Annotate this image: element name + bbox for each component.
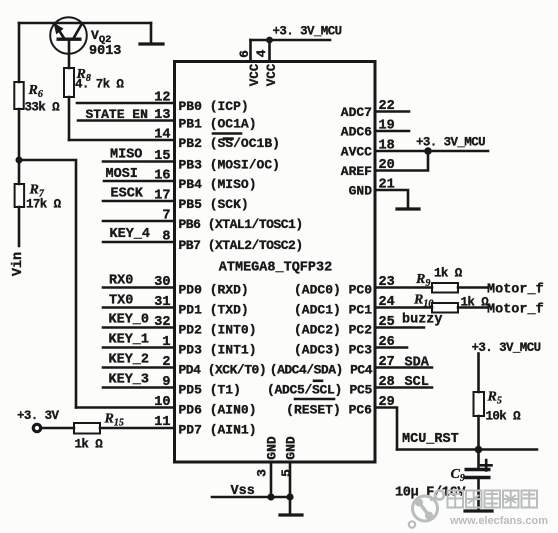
pin name GND — [349, 184, 373, 199]
ground below C9 — [465, 509, 492, 512]
watermark www.elecfans.com — [449, 515, 548, 527]
pin name VCC (pin6) — [248, 63, 262, 86]
wire pin 9 stub (KEY_3) — [103, 386, 175, 389]
pin name (ADC2) PC2 — [294, 323, 372, 338]
wire pin 8 stub (KEY_4) — [103, 241, 175, 244]
wire pin 14 row — [69, 139, 175, 142]
pin name AVCC — [341, 145, 372, 160]
label 1k ohm (R10) — [461, 296, 490, 310]
pin name PB2 (SS/OC1B) — [179, 136, 280, 151]
svg-text:ADC6: ADC6 — [341, 125, 372, 140]
pin number 30 — [154, 275, 170, 290]
net label SDA — [405, 356, 430, 371]
wire pin 31 stub (TX0) — [103, 306, 175, 309]
node on AVCC rail — [424, 147, 432, 155]
ground bottom center — [280, 513, 302, 516]
svg-text:GND: GND — [349, 184, 373, 199]
svg-text:9013: 9013 — [89, 44, 121, 59]
svg-text:27: 27 — [379, 355, 395, 370]
svg-text:10: 10 — [154, 395, 170, 410]
svg-text:1: 1 — [162, 335, 170, 350]
pin name GND (pin5) — [284, 436, 299, 460]
svg-text:PB7 (XTAL2/TOSC2): PB7 (XTAL2/TOSC2) — [179, 238, 303, 253]
pin 6 stub — [249, 40, 252, 62]
svg-text:R6: R6 — [28, 83, 43, 100]
net label ESCK — [111, 187, 144, 202]
svg-text:VCC: VCC — [265, 63, 279, 86]
wire pin 18 rail (+3.3V_MCU) — [375, 150, 488, 153]
label 1k ohm — [75, 438, 104, 452]
pin name PD1 (TXD) — [179, 303, 249, 318]
svg-text:+3. 3V_MCU: +3. 3V_MCU — [416, 136, 485, 150]
label C9 — [451, 467, 465, 484]
pin name (ADC1) PC1 — [294, 303, 372, 318]
net label buzzy — [402, 313, 443, 328]
net label KEY_2 — [109, 353, 150, 368]
pin 4 stub — [268, 40, 271, 62]
pin number 24 — [379, 295, 395, 310]
svg-text:(RESET) PC6: (RESET) PC6 — [286, 403, 372, 418]
label +3.3V — [17, 409, 60, 423]
label 9013 — [89, 44, 121, 59]
svg-text:PD2 (INT0): PD2 (INT0) — [179, 323, 257, 338]
pin number 21 — [379, 178, 395, 193]
pin number 26 — [379, 335, 395, 350]
pin name (RESET) PC6 with overline — [286, 399, 372, 418]
wire pin 20 stub to AVCC rail — [375, 151, 428, 171]
pin number 18 — [379, 139, 395, 154]
svg-text:12: 12 — [154, 91, 170, 106]
svg-text:18: 18 — [379, 139, 395, 154]
wire MCU_RST rail — [397, 448, 537, 451]
pin name PD6 (AIN0) — [179, 403, 257, 418]
svg-text:21: 21 — [379, 178, 395, 193]
svg-text:R9: R9 — [415, 272, 430, 289]
svg-text:29: 29 — [379, 395, 395, 410]
svg-text:14: 14 — [154, 128, 170, 143]
net label Motor_f (pin24) — [487, 303, 544, 318]
pin number 4 — [254, 49, 269, 57]
pin name VCC (pin4) — [265, 63, 279, 86]
node Vss-pin5 — [286, 493, 293, 500]
pin number 20 — [379, 158, 395, 173]
svg-text:KEY_0: KEY_0 — [109, 313, 150, 328]
svg-text:PD3 (INT1): PD3 (INT1) — [179, 343, 257, 358]
svg-text:30: 30 — [154, 275, 170, 290]
svg-text:+3. 3V: +3. 3V — [17, 409, 60, 423]
label +3.3V_MCU top — [273, 25, 342, 39]
pin number 27 — [379, 355, 395, 370]
wire pin 12 stub — [77, 102, 175, 105]
pin name (ADC4/SDA) PC4 — [270, 363, 373, 378]
wire pin 22 stub — [375, 110, 409, 113]
svg-text:9: 9 — [162, 375, 170, 390]
ground at transistor right — [140, 23, 163, 44]
pin number 12 — [154, 91, 170, 106]
wire pin 26 stub — [375, 346, 407, 349]
svg-text:33k Ω: 33k Ω — [25, 101, 61, 115]
svg-text:PD4 (XCK/T0): PD4 (XCK/T0) — [179, 363, 267, 378]
svg-text:ADC7: ADC7 — [341, 105, 372, 120]
pin 5 GND stub — [289, 462, 292, 497]
svg-text:23: 23 — [379, 275, 395, 290]
pin 3 GND stub — [270, 462, 273, 497]
watermark CJK text block — [448, 491, 538, 508]
svg-text:3: 3 — [255, 469, 270, 477]
svg-text:Motor_f: Motor_f — [487, 283, 544, 298]
wire: transistor collector/emitter top rail — [19, 22, 151, 25]
pin number 17 — [154, 189, 170, 204]
pin number 32 — [154, 315, 170, 330]
pin number 29 — [379, 395, 395, 410]
net label KEY_0 — [109, 313, 150, 328]
resistor R15 — [74, 423, 100, 434]
svg-text:1k Ω: 1k Ω — [434, 267, 463, 281]
wire: left vertical down to R6 — [18, 23, 21, 82]
pin number 16 — [154, 169, 170, 184]
pin name PB3 (MOSI/OC) — [179, 158, 280, 173]
svg-text:PB4 (MISO): PB4 (MISO) — [179, 177, 257, 192]
pin number 31 — [154, 295, 170, 310]
svg-text:PB5 (SCK): PB5 (SCK) — [179, 197, 249, 212]
svg-text:24: 24 — [379, 295, 395, 310]
label 33k ohm — [25, 101, 61, 115]
wire pin 19 stub — [375, 130, 409, 133]
watermark logo pads — [409, 491, 444, 528]
pin name PB0 (ICP) — [179, 99, 249, 114]
svg-text:AVCC: AVCC — [341, 145, 372, 160]
svg-text:11: 11 — [154, 415, 170, 430]
label +3.3V_MCU right — [416, 136, 485, 150]
wire pin 21 stub — [375, 190, 408, 209]
net label MOSI — [106, 167, 138, 182]
svg-text:KEY_3: KEY_3 — [109, 373, 150, 388]
svg-text:10k Ω: 10k Ω — [486, 410, 522, 424]
wire pin 25 stub — [375, 326, 424, 329]
svg-text:(ADC3) PC3: (ADC3) PC3 — [294, 343, 372, 358]
wire pin 13 stub (STATE EN) — [78, 119, 175, 122]
wire R10 to Motor_f — [458, 306, 487, 309]
label R9 — [415, 272, 430, 289]
svg-text:(ADC2) PC2: (ADC2) PC2 — [294, 323, 372, 338]
svg-text:Vss: Vss — [231, 484, 255, 499]
resistor R9 — [432, 283, 458, 293]
wire: R6 to R7 — [18, 109, 21, 184]
pin number 22 — [379, 99, 395, 114]
terminal +3.3V — [33, 424, 40, 431]
wire pin 16 stub (MOSI) — [104, 180, 175, 183]
svg-text:PD1 (TXD): PD1 (TXD) — [179, 303, 249, 318]
pin name PD3 (INT1) — [179, 343, 257, 358]
pin number 6 — [237, 50, 252, 58]
pin number 23 — [379, 275, 395, 290]
pin number 8 — [162, 230, 170, 245]
svg-text:4: 4 — [254, 49, 269, 57]
net label KEY_3 — [109, 373, 150, 388]
svg-text:13: 13 — [154, 108, 170, 123]
resistor R7 — [15, 184, 25, 207]
pin name (ADC3) PC3 — [294, 343, 372, 358]
net label SCL — [405, 375, 429, 390]
svg-text:R15: R15 — [104, 412, 124, 429]
pin number 3 — [255, 469, 270, 477]
svg-text:C9: C9 — [451, 467, 465, 484]
svg-text:AREF: AREF — [341, 164, 372, 179]
pin name PD7 (AIN1) — [179, 423, 257, 438]
wire Vss rail — [212, 496, 290, 499]
svg-text:PB1 (OC1A): PB1 (OC1A) — [179, 117, 257, 132]
label 10k ohm — [486, 410, 522, 424]
svg-text:STATE EN: STATE EN — [86, 107, 148, 122]
svg-text:17k Ω: 17k Ω — [26, 198, 62, 212]
pin name PB4 (MISO) — [179, 177, 257, 192]
pin name PD5 (T1) — [179, 383, 241, 398]
wire pin 1 stub (KEY_1) — [103, 346, 175, 349]
svg-text:25: 25 — [379, 315, 395, 330]
label VQ2 — [91, 28, 111, 46]
wire R9 to Motor_f — [458, 286, 487, 289]
wire: R15 to pin 11 — [100, 427, 175, 430]
net label TX0 — [109, 294, 133, 309]
net label Vss — [231, 484, 255, 499]
wire pin 10 row — [76, 406, 175, 409]
svg-text:17: 17 — [154, 189, 170, 204]
svg-text:MCU_RST: MCU_RST — [402, 432, 459, 447]
label + polarity of C9 — [481, 460, 492, 471]
svg-text:Vin: Vin — [11, 252, 26, 276]
svg-text:GND: GND — [265, 436, 280, 460]
svg-text:SDA: SDA — [405, 356, 430, 371]
svg-text:Motor_f: Motor_f — [487, 303, 544, 318]
svg-text:5: 5 — [279, 469, 294, 477]
svg-text:2: 2 — [162, 355, 170, 370]
svg-text:ESCK: ESCK — [111, 187, 144, 202]
svg-text:(ADC4/SDA) PC4: (ADC4/SDA) PC4 — [270, 363, 373, 378]
svg-text:20: 20 — [379, 158, 395, 173]
svg-text:1k Ω: 1k Ω — [75, 438, 104, 452]
resistor R8 — [64, 68, 74, 97]
net label MCU_RST — [402, 432, 459, 447]
pin name (ADC0) PC0 — [294, 283, 372, 298]
pin name ADC6 — [341, 125, 372, 140]
label R7 — [29, 183, 45, 200]
svg-text:26: 26 — [379, 335, 395, 350]
node: junction on Vin rail — [16, 157, 23, 164]
svg-text:KEY_2: KEY_2 — [109, 353, 150, 368]
svg-text:VCC: VCC — [248, 63, 262, 86]
svg-text:www.elecfans.com: www.elecfans.com — [449, 515, 548, 527]
wire pin 29 to MCU_RST rail — [375, 408, 397, 450]
svg-text:ATMEGA8_TQFP32: ATMEGA8_TQFP32 — [219, 261, 332, 276]
label 4.7k ohm — [75, 78, 124, 92]
wire: terminal to R15 — [41, 427, 74, 430]
svg-text:PD5 (T1): PD5 (T1) — [179, 383, 241, 398]
capacitor C9 — [465, 470, 491, 478]
pin name PB1 (OC1A) — [179, 117, 257, 134]
label Vin — [11, 252, 26, 276]
wire R5 to MCU_RST rail — [477, 416, 480, 450]
pin number 10 — [154, 395, 170, 410]
svg-text:32: 32 — [154, 315, 170, 330]
pin name PD0 (RXD) — [179, 283, 249, 298]
svg-text:7: 7 — [162, 209, 170, 224]
wire: VCC top rail — [251, 39, 331, 42]
wire pin 28 stub — [375, 386, 432, 389]
label +3.3V_MCU above R5 — [472, 341, 541, 355]
wire: R7 to Vin — [18, 207, 21, 246]
wire pin 17 stub (ESCK) — [103, 200, 175, 203]
resistor R10 — [432, 303, 458, 313]
svg-text:8: 8 — [162, 230, 170, 245]
svg-text:31: 31 — [154, 295, 170, 310]
svg-text:(ADC0) PC0: (ADC0) PC0 — [294, 283, 372, 298]
net label Motor_f (pin23) — [487, 283, 544, 298]
svg-text:22: 22 — [379, 99, 395, 114]
svg-text:R5: R5 — [487, 390, 502, 407]
pin number 11 — [154, 415, 170, 430]
wire C9 to ground — [477, 480, 480, 511]
wire to bottom ground — [289, 497, 292, 515]
svg-text:PB3 (MOSI/OC): PB3 (MOSI/OC) — [179, 158, 280, 173]
wire: junction to pin 10 column — [19, 160, 76, 408]
pin number 15 — [154, 149, 170, 164]
label 1k ohm (R9) — [434, 267, 463, 281]
svg-text:PD7 (AIN1): PD7 (AIN1) — [179, 423, 257, 438]
svg-text:19: 19 — [379, 119, 395, 134]
svg-text:1k Ω: 1k Ω — [461, 296, 490, 310]
svg-text:PB6 (XTAL1/TOSC1): PB6 (XTAL1/TOSC1) — [179, 217, 303, 232]
svg-text:PB0 (ICP): PB0 (ICP) — [179, 99, 249, 114]
label R6 — [28, 83, 43, 100]
svg-text:28: 28 — [379, 375, 395, 390]
pin name GND (pin3) — [265, 436, 280, 460]
net label RX0 — [109, 274, 133, 289]
pin name PD4 (XCK/T0) — [179, 363, 267, 378]
label ATMEGA8_TQFP32 — [219, 261, 332, 276]
pin number 19 — [379, 119, 395, 134]
label R8 — [76, 67, 91, 84]
svg-text:PD0 (RXD): PD0 (RXD) — [179, 283, 249, 298]
svg-text:+3. 3V_MCU: +3. 3V_MCU — [472, 341, 541, 355]
net label KEY_4 — [110, 227, 151, 242]
resistor R5 — [474, 392, 485, 416]
wire MCU_RST rail to C9 — [477, 450, 480, 468]
net label MISO — [110, 148, 142, 163]
svg-text:4. 7k Ω: 4. 7k Ω — [75, 78, 124, 92]
svg-text:RX0: RX0 — [109, 274, 133, 289]
pin number 1 — [162, 335, 170, 350]
op-amp? no: IC U1 ATMEGA8 body — [175, 62, 376, 463]
wire pin 30 stub (RX0) — [103, 286, 175, 289]
pin number 9 — [162, 375, 170, 390]
wire pin 23 stub — [375, 286, 432, 289]
svg-text:(ADC1) PC1: (ADC1) PC1 — [294, 303, 372, 318]
label R15 — [104, 412, 124, 429]
wire pin 15 stub (MISO) — [103, 160, 175, 163]
wire pin 24 stub — [375, 306, 432, 309]
pin name (ADC5/SCL) PC5 — [267, 381, 373, 398]
pin name PD2 (INT0) — [179, 323, 257, 338]
svg-text:6: 6 — [237, 50, 252, 58]
pin name PB7 (XTAL2/TOSC2) — [179, 238, 303, 253]
node on MCU_RST rail — [475, 446, 483, 454]
wire pin 32 stub (KEY_0) — [103, 326, 175, 329]
pin number 14 — [154, 128, 170, 143]
svg-text:R10: R10 — [413, 293, 433, 310]
svg-text:KEY_1: KEY_1 — [109, 333, 150, 348]
pin number 2 — [162, 355, 170, 370]
svg-text:TX0: TX0 — [109, 294, 133, 309]
pin name PB5 (SCK) — [179, 197, 249, 212]
ground at pin 21 — [397, 207, 419, 210]
svg-text:MISO: MISO — [110, 148, 142, 163]
pin number 28 — [379, 375, 395, 390]
label 17k ohm — [26, 198, 62, 212]
svg-text:SCL: SCL — [405, 375, 429, 390]
pin name AREF — [341, 164, 372, 179]
svg-text:MOSI: MOSI — [106, 167, 138, 182]
wire: R8 bottom to pin 14 row — [68, 97, 71, 140]
svg-text:PD6 (AIN0): PD6 (AIN0) — [179, 403, 257, 418]
transistor Q2 (VQ2 9013) — [50, 17, 87, 68]
pin number 25 — [379, 315, 395, 330]
pin number 5 — [279, 469, 294, 477]
label R5 — [487, 390, 502, 407]
svg-text:16: 16 — [154, 169, 170, 184]
pin name PB6 (XTAL1/TOSC1) — [179, 217, 303, 232]
svg-text:(ADC5/SCL) PC5: (ADC5/SCL) PC5 — [267, 383, 373, 398]
net label KEY_1 — [109, 333, 150, 348]
resistor R6 — [14, 82, 23, 109]
node on VCC rail — [266, 37, 273, 44]
wire pin 27 stub — [375, 366, 432, 369]
pin number 13 — [154, 108, 170, 123]
svg-text:KEY_4: KEY_4 — [110, 227, 151, 242]
svg-text:+3. 3V_MCU: +3. 3V_MCU — [273, 25, 342, 39]
wire pin 2 stub (KEY_2) — [103, 366, 175, 369]
label 10uF/16V — [395, 486, 466, 501]
svg-text:buzzy: buzzy — [402, 313, 443, 328]
pin name ADC7 — [341, 105, 372, 120]
wire pin 7 stub — [103, 220, 175, 223]
node Vss-pin3 — [267, 493, 274, 500]
net label STATE EN — [86, 107, 148, 122]
label R10 — [413, 293, 433, 310]
svg-text:GND: GND — [284, 436, 299, 460]
wire +3.3V_MCU to R5 — [477, 354, 480, 393]
svg-text:15: 15 — [154, 149, 170, 164]
pin number 7 — [162, 209, 170, 224]
